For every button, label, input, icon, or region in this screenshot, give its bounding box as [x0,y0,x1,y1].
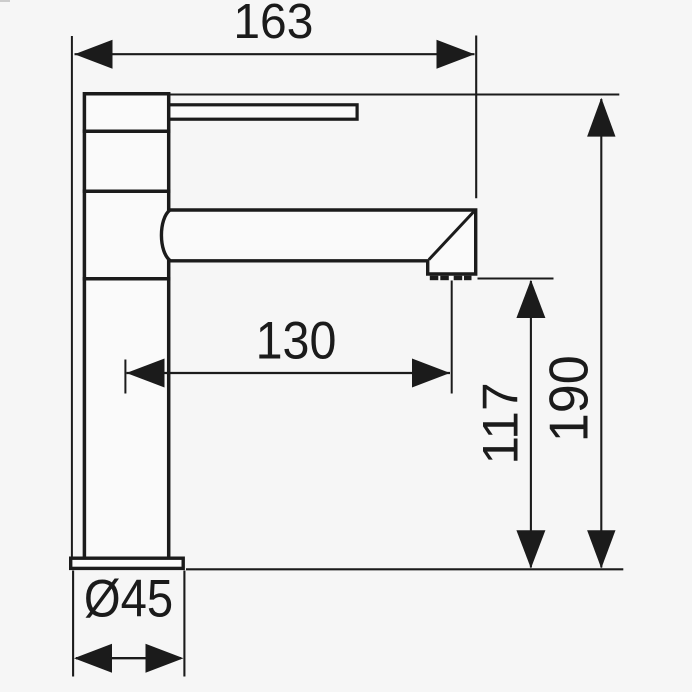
svg-text:190: 190 [538,355,600,442]
svg-text:130: 130 [256,312,337,371]
svg-text:Ø45: Ø45 [84,570,173,629]
svg-text:163: 163 [233,0,313,49]
svg-text:117: 117 [473,382,529,464]
